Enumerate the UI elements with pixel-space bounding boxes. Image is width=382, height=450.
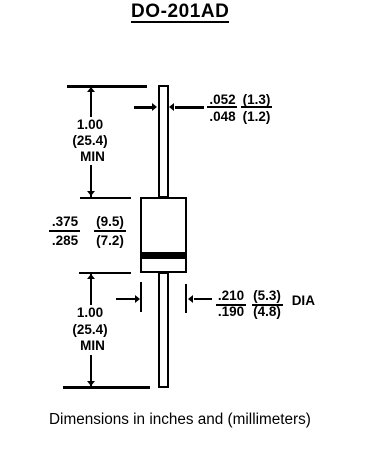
label (9.5)/(7.2) [93, 215, 127, 228]
extension line bottom of lead [63, 386, 150, 389]
label (5.3)/(4.8) [250, 289, 284, 302]
caption [49, 412, 311, 428]
label .210/.190 [214, 289, 248, 302]
label (1.3)/(1.2) [240, 93, 273, 106]
arrowhead down (bottom dim) [87, 381, 95, 386]
arrowhead up (top dim) [87, 87, 95, 92]
lead upper segment [158, 85, 169, 198]
dimension line lower 1.00 MIN [90, 274, 92, 387]
label 1.00 (25.4) MIN upper [60, 117, 120, 165]
cathode band [142, 252, 185, 259]
label .375/.285 [47, 215, 83, 228]
body [140, 197, 187, 273]
lead lower segment [158, 272, 168, 388]
lead width arrow right [169, 103, 174, 111]
label 1.00 (25.4) MIN lower [60, 305, 120, 355]
DIA extension bar right [185, 284, 187, 314]
lead width arrow left [134, 106, 153, 108]
title DO-201AD [131, 2, 229, 23]
DIA arrow left [116, 298, 136, 300]
label DIA [292, 294, 315, 307]
extension line top of lead [67, 85, 148, 88]
DIA arrow right [188, 295, 193, 303]
extension line body bottom [79, 272, 131, 274]
extension line body top [80, 197, 131, 199]
arrowhead down (top dim) [87, 191, 95, 196]
dimension line upper 1.00 MIN [90, 87, 92, 197]
label .052/.048 [205, 93, 240, 106]
arrowhead up (bottom dim) [87, 274, 95, 279]
DIA extension bar left [140, 282, 142, 312]
